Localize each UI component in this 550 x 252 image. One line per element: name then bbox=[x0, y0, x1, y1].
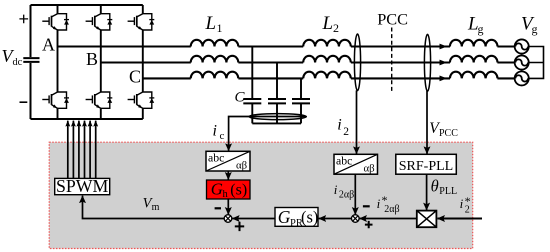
source Vg phase B bbox=[515, 55, 529, 69]
svg-text:αβ: αβ bbox=[364, 162, 376, 174]
svg-text:SPWM: SPWM bbox=[56, 176, 109, 196]
svg-text:g: g bbox=[478, 22, 484, 36]
label minus bbox=[20, 101, 28, 103]
svg-text:C: C bbox=[235, 90, 246, 106]
inductor L2 phase A bbox=[303, 40, 351, 47]
wire i2 down bbox=[356, 90, 358, 153]
svg-text:h: h bbox=[223, 189, 229, 200]
wire GPR to sum1 bbox=[232, 218, 275, 220]
svg-text:PCC: PCC bbox=[439, 128, 458, 139]
svg-text:c: c bbox=[220, 130, 225, 142]
wire gate signals bbox=[68, 121, 96, 179]
svg-text:θ: θ bbox=[431, 176, 439, 195]
arrow grid phase A bbox=[440, 44, 448, 50]
inductor L2 phase B bbox=[303, 56, 351, 63]
wire Vm to SPWM bbox=[83, 196, 225, 219]
source Vg phase A bbox=[515, 39, 529, 53]
svg-text:2αβ: 2αβ bbox=[339, 190, 354, 201]
inductor L1 phase A bbox=[191, 40, 239, 47]
svg-text:(s): (s) bbox=[301, 208, 318, 227]
svg-text:abc: abc bbox=[336, 154, 352, 168]
current sensor ic ellipse bbox=[249, 114, 306, 120]
block abc-ab 2 bbox=[334, 154, 378, 175]
wire DC bus left bbox=[30, 5, 32, 119]
wire Gh to sum1 bbox=[227, 199, 229, 215]
transistor Q6 bbox=[128, 92, 155, 108]
control area gray box bbox=[49, 142, 473, 248]
svg-text:G: G bbox=[211, 180, 223, 199]
svg-text:dc: dc bbox=[13, 57, 23, 68]
wire bottom DC rail bbox=[31, 118, 143, 120]
inductor Lg phase C bbox=[450, 72, 498, 79]
inductor L1 phase C bbox=[191, 72, 239, 79]
arrow grid phase B bbox=[440, 60, 448, 66]
wire Vg neutral bbox=[529, 47, 544, 79]
svg-text:(s): (s) bbox=[230, 182, 247, 199]
block abc-ab 1 bbox=[206, 150, 250, 171]
current sensor i2 ellipse bbox=[354, 34, 360, 91]
arrow grid phase C bbox=[440, 76, 448, 82]
wire abc1 to Gh bbox=[227, 171, 229, 180]
svg-text:2: 2 bbox=[333, 21, 339, 35]
wire ic measurement bbox=[229, 117, 306, 151]
transistor Q1 bbox=[42, 14, 69, 30]
svg-text:L: L bbox=[322, 13, 334, 34]
block Gh(s) red bbox=[207, 180, 251, 201]
wire leg3 bbox=[142, 5, 144, 119]
wire mult to sum2 bbox=[359, 218, 416, 220]
svg-text:i: i bbox=[377, 196, 381, 211]
svg-text:i: i bbox=[334, 182, 338, 197]
block SRF-PLL bbox=[396, 154, 457, 174]
wire sum2 to GPR bbox=[319, 218, 352, 220]
svg-text:SRF-PLL: SRF-PLL bbox=[399, 159, 453, 174]
svg-text:2: 2 bbox=[465, 204, 470, 215]
source Vg phase C bbox=[515, 71, 529, 85]
inductor L1 phase B bbox=[191, 56, 239, 63]
wire PCC dashed line bbox=[391, 28, 393, 93]
wire phase B bbox=[101, 61, 515, 63]
label sum2 plus bbox=[365, 221, 373, 228]
label plus bbox=[19, 15, 28, 24]
label i2ab ref bbox=[377, 193, 400, 215]
wire PLL to mult bbox=[426, 174, 428, 210]
wire leg2 bbox=[100, 5, 102, 119]
svg-text:i: i bbox=[213, 123, 217, 140]
inductor Lg phase B bbox=[450, 56, 498, 63]
svg-text:i: i bbox=[337, 117, 341, 134]
label i2 ref bbox=[460, 194, 471, 216]
svg-text:g: g bbox=[532, 22, 538, 36]
wire cap branch 1 bbox=[251, 47, 253, 124]
wire phase C bbox=[143, 77, 515, 79]
svg-text:2αβ: 2αβ bbox=[384, 204, 399, 215]
svg-text:2: 2 bbox=[343, 126, 349, 138]
svg-text:A: A bbox=[42, 35, 55, 55]
wire cap branch 2 bbox=[276, 63, 278, 124]
wire i2ab to sum2 bbox=[354, 174, 356, 214]
capacitor C phase C bbox=[292, 99, 310, 103]
wire i2ref to mult bbox=[437, 218, 482, 220]
svg-text:i: i bbox=[460, 196, 464, 211]
block GPR(s) bbox=[275, 207, 318, 229]
wire Vpcc down bbox=[426, 91, 428, 154]
block SPWM bbox=[55, 178, 110, 194]
capacitor C phase B bbox=[268, 99, 286, 103]
wire cap bottom bus bbox=[252, 122, 301, 124]
inductor Lg phase A bbox=[450, 40, 498, 47]
inductor L2 phase C bbox=[303, 72, 351, 79]
svg-text:abc: abc bbox=[208, 150, 224, 164]
wire leg1 bbox=[57, 5, 59, 119]
label sum2 minus bbox=[363, 205, 370, 207]
wire phase A bbox=[58, 45, 515, 47]
transistor Q5 bbox=[128, 14, 155, 30]
capacitor Cdc bbox=[23, 58, 39, 62]
svg-text:1: 1 bbox=[217, 21, 223, 35]
wire top DC rail bbox=[31, 4, 143, 6]
transistor Q3 bbox=[86, 14, 113, 30]
wire cap branch 3 bbox=[300, 78, 302, 123]
svg-text:PLL: PLL bbox=[439, 186, 457, 197]
svg-text:PCC: PCC bbox=[377, 10, 408, 29]
svg-text:m: m bbox=[152, 202, 160, 213]
svg-text:L: L bbox=[205, 13, 217, 34]
svg-text:B: B bbox=[86, 49, 98, 69]
svg-text:G: G bbox=[278, 207, 291, 227]
svg-text:αβ: αβ bbox=[236, 159, 248, 171]
label sum1 plus bbox=[235, 222, 244, 231]
svg-text:C: C bbox=[129, 67, 141, 87]
transistor Q4 bbox=[86, 92, 113, 108]
summing junction sum1 bbox=[224, 215, 232, 223]
transistor Q2 bbox=[42, 92, 69, 108]
label sum1 minus bbox=[215, 207, 221, 209]
capacitor C phase A bbox=[243, 99, 261, 103]
summing junction sum2 bbox=[352, 215, 360, 223]
multiplier bbox=[417, 211, 437, 228]
voltage sensor Vpcc ellipse bbox=[424, 34, 430, 91]
